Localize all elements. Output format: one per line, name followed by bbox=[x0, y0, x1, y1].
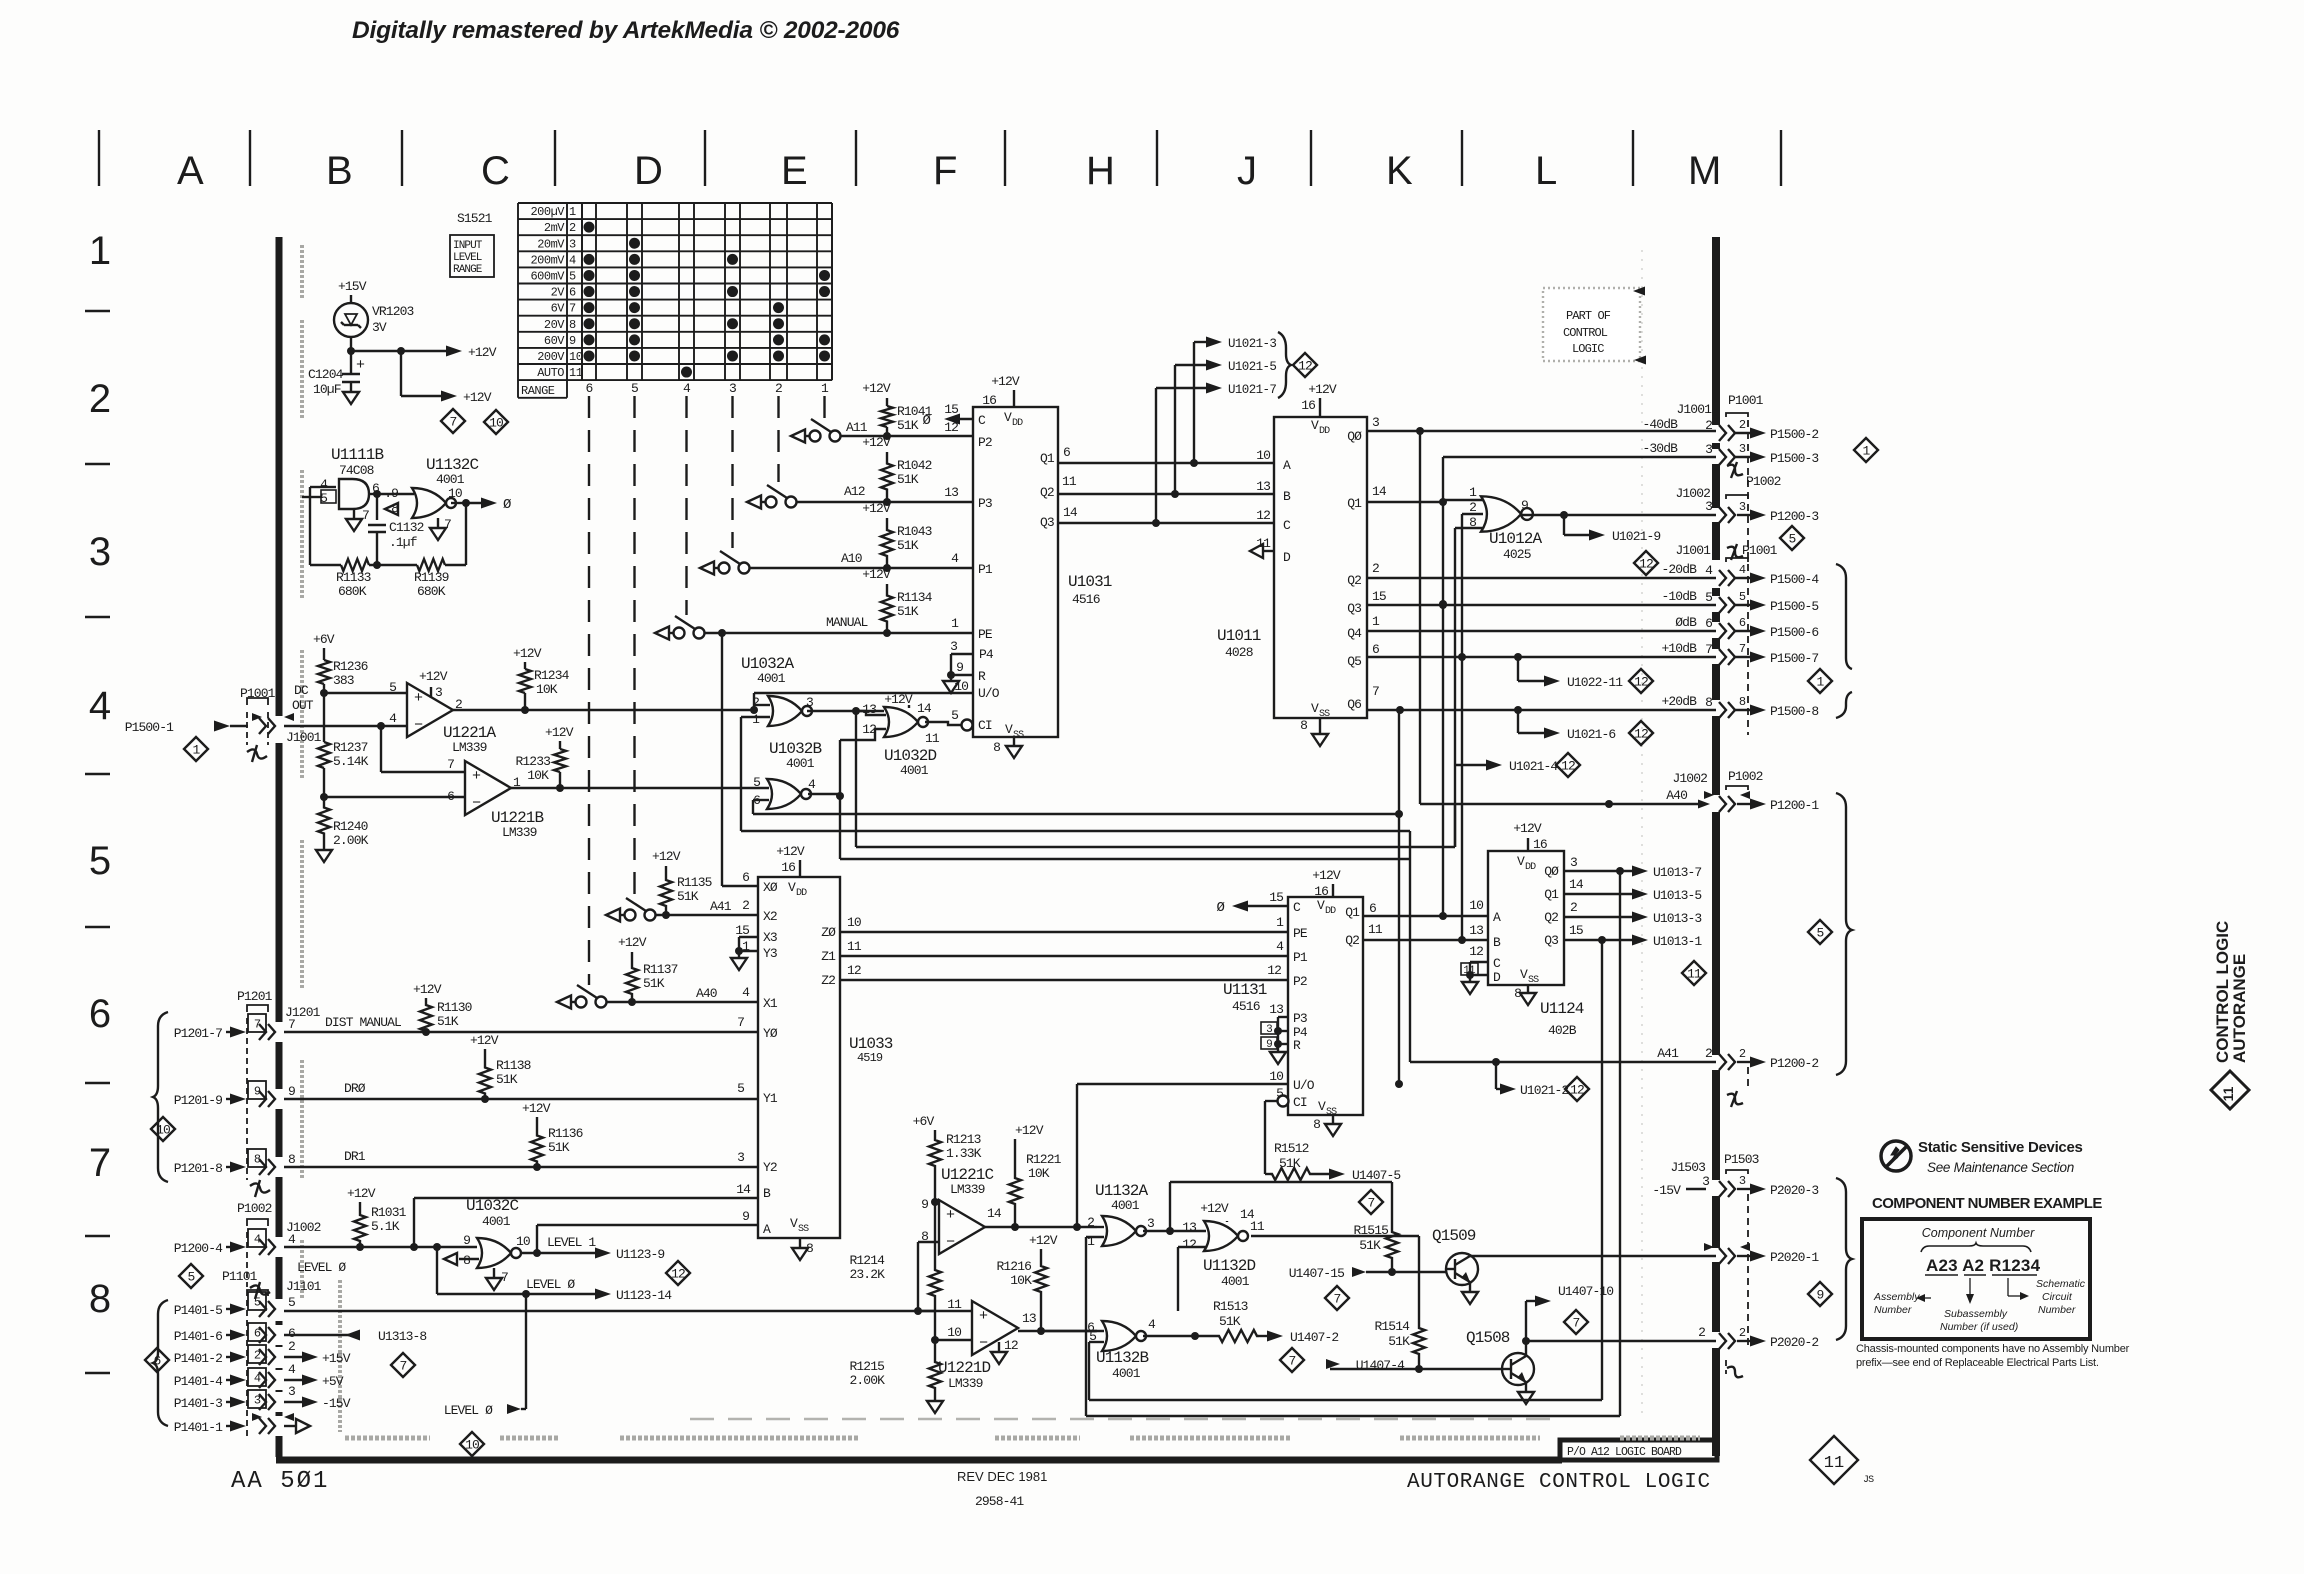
svg-text:P1201-9: P1201-9 bbox=[174, 1093, 222, 1108]
IC U1033 4519 bbox=[758, 877, 840, 1238]
connector P1401-2 row +15V bbox=[248, 1345, 266, 1363]
svg-text:8: 8 bbox=[1739, 695, 1746, 709]
svg-text:P1503: P1503 bbox=[1724, 1152, 1759, 1167]
Q1508 emitter ground bbox=[1525, 1382, 1527, 1392]
svg-text:QØ: QØ bbox=[1347, 429, 1362, 444]
U1221D pin 12 ground bbox=[998, 1342, 1000, 1352]
svg-text:5: 5 bbox=[1705, 590, 1712, 605]
svg-text:1: 1 bbox=[193, 743, 201, 758]
resistor R1133 bbox=[341, 559, 369, 571]
svg-text:8: 8 bbox=[89, 1277, 111, 1321]
left thick border bar bbox=[276, 237, 283, 716]
svg-text:200V: 200V bbox=[537, 350, 565, 364]
schematic circuit number label bbox=[2007, 1278, 2009, 1296]
svg-text:10: 10 bbox=[847, 915, 861, 930]
svg-text:P1101: P1101 bbox=[222, 1269, 258, 1284]
dashed P1001 bracket right bbox=[1747, 420, 1749, 735]
svg-text:R1031: R1031 bbox=[371, 1205, 407, 1220]
svg-text:600mV: 600mV bbox=[530, 270, 565, 284]
svg-text:P2020-3: P2020-3 bbox=[1770, 1183, 1818, 1198]
svg-text:51K: 51K bbox=[677, 889, 699, 904]
svg-text:U1013-1: U1013-1 bbox=[1653, 934, 1702, 949]
svg-text:P/O A12 LOGIC BOARD: P/O A12 LOGIC BOARD bbox=[1567, 1446, 1682, 1459]
svg-text:U1131: U1131 bbox=[1223, 981, 1267, 999]
feedback loop wires bottom bbox=[1088, 1342, 1090, 1400]
svg-text:680K: 680K bbox=[417, 584, 446, 599]
svg-text:P1: P1 bbox=[978, 562, 993, 577]
zener diode VR1203 bbox=[334, 303, 368, 337]
svg-text:.1µf: .1µf bbox=[389, 535, 417, 550]
svg-text:+12V: +12V bbox=[1513, 821, 1542, 836]
svg-text:V: V bbox=[1311, 418, 1319, 433]
svg-text:9: 9 bbox=[921, 1197, 928, 1212]
svg-text:+: + bbox=[414, 690, 423, 707]
svg-text:DR1: DR1 bbox=[344, 1149, 366, 1164]
diamond 12 bottom left bbox=[666, 1261, 690, 1285]
svg-text:9: 9 bbox=[288, 1084, 295, 1099]
svg-text:−: − bbox=[979, 1335, 988, 1352]
svg-text:INPUT: INPUT bbox=[453, 240, 483, 252]
svg-text:7: 7 bbox=[288, 1017, 295, 1032]
svg-text:J1001: J1001 bbox=[1676, 402, 1712, 417]
svg-text:F: F bbox=[933, 149, 957, 193]
svg-text:3: 3 bbox=[288, 1384, 295, 1399]
svg-text:5: 5 bbox=[188, 1270, 195, 1285]
diamond 11 right margin bbox=[2211, 1071, 2249, 1109]
connector P1401-3 row -15V bbox=[248, 1390, 266, 1408]
svg-text:P1002: P1002 bbox=[237, 1201, 272, 1216]
svg-text:LOGIC: LOGIC bbox=[1572, 342, 1604, 356]
svg-text:4516: 4516 bbox=[1232, 999, 1260, 1014]
crease arrows near control logic box bbox=[1633, 287, 1645, 296]
svg-text:LEVEL Ø: LEVEL Ø bbox=[444, 1403, 493, 1418]
svg-text:4: 4 bbox=[1705, 563, 1713, 578]
diamond 10 bottom bbox=[460, 1432, 484, 1456]
svg-text:1: 1 bbox=[1372, 614, 1380, 629]
Q1508 collector to P2020-2 junction bbox=[1525, 1341, 1527, 1356]
svg-text:7: 7 bbox=[362, 508, 369, 523]
wire U1032C output up to U1033 A bbox=[536, 1225, 538, 1253]
svg-text:+12V: +12V bbox=[419, 669, 448, 684]
wire -30dB row from U1012A region bbox=[1443, 456, 1716, 458]
svg-text:U1021-7: U1021-7 bbox=[1228, 383, 1276, 397]
svg-text:U/O: U/O bbox=[1293, 1078, 1315, 1093]
svg-text:9: 9 bbox=[1266, 1039, 1272, 1051]
svg-text:1: 1 bbox=[89, 229, 111, 273]
U1011 Q1 wire bbox=[1367, 501, 1443, 503]
svg-text:A: A bbox=[1493, 910, 1501, 925]
svg-text:B: B bbox=[763, 1186, 771, 1201]
svg-text:XØ: XØ bbox=[763, 880, 778, 895]
U1132A-D junction bus to R1515 bbox=[1166, 1227, 1174, 1235]
U1221C output wire bbox=[985, 1226, 1097, 1228]
svg-text:−: − bbox=[946, 1234, 955, 1251]
svg-text:60V: 60V bbox=[544, 334, 565, 348]
svg-text:AUTORANGE CONTROL LOGIC: AUTORANGE CONTROL LOGIC bbox=[1407, 1471, 1711, 1494]
svg-text:R1213: R1213 bbox=[946, 1132, 981, 1147]
svg-text:+12V: +12V bbox=[1308, 382, 1337, 397]
svg-text:J1001: J1001 bbox=[1675, 543, 1711, 558]
svg-text:74C08: 74C08 bbox=[339, 463, 374, 478]
U1221D plus wire bbox=[918, 1310, 972, 1312]
svg-text:20V: 20V bbox=[544, 318, 565, 332]
svg-text:R1133: R1133 bbox=[336, 570, 371, 585]
svg-text:7: 7 bbox=[1573, 1316, 1580, 1331]
U1031 pin 16 VDD +12V bbox=[1013, 390, 1015, 407]
capacitor C1204 bbox=[350, 351, 352, 374]
svg-text:9: 9 bbox=[956, 660, 963, 675]
U1032C ground pin 7 bbox=[493, 1268, 495, 1278]
svg-text:V: V bbox=[1517, 854, 1525, 869]
svg-text:See Maintenance Section: See Maintenance Section bbox=[1927, 1160, 2074, 1175]
long bus wire 4 bbox=[839, 796, 841, 859]
svg-text:5: 5 bbox=[737, 1081, 744, 1096]
svg-text:4001: 4001 bbox=[1111, 1198, 1140, 1213]
svg-text:U1021-3: U1021-3 bbox=[1228, 337, 1276, 351]
svg-text:+12V: +12V bbox=[347, 1186, 376, 1201]
svg-text:10: 10 bbox=[489, 416, 503, 431]
svg-text:P1401-1: P1401-1 bbox=[174, 1420, 223, 1435]
svg-text:MANUAL: MANUAL bbox=[826, 615, 868, 630]
wire A40 to U1033 X1 bbox=[606, 1001, 758, 1003]
svg-text:13: 13 bbox=[944, 485, 958, 500]
op-amp U1221D bbox=[972, 1301, 1018, 1355]
svg-text:12: 12 bbox=[1298, 359, 1312, 374]
svg-text:YØ: YØ bbox=[763, 1026, 778, 1041]
svg-text:10: 10 bbox=[1269, 1069, 1283, 1084]
svg-text:10: 10 bbox=[465, 1438, 479, 1453]
svg-text:Q1: Q1 bbox=[1544, 887, 1559, 902]
svg-text:12: 12 bbox=[847, 963, 861, 978]
svg-text:D: D bbox=[1493, 970, 1501, 985]
svg-text:K: K bbox=[1386, 149, 1413, 193]
svg-text:B: B bbox=[1493, 935, 1501, 950]
svg-text:OUT: OUT bbox=[292, 698, 314, 713]
svg-text:10: 10 bbox=[569, 350, 583, 364]
svg-text:R1233: R1233 bbox=[515, 754, 550, 769]
svg-text:C: C bbox=[1293, 900, 1301, 915]
wire down to second +12V arrow bbox=[400, 351, 402, 396]
NOR gate U1032A bbox=[768, 696, 802, 726]
svg-text:LEVEL: LEVEL bbox=[453, 252, 482, 264]
svg-text:Ø: Ø bbox=[922, 413, 930, 429]
arrow U1021-9 bbox=[1563, 515, 1565, 535]
svg-text:2: 2 bbox=[1372, 561, 1379, 576]
svg-text:+5V: +5V bbox=[322, 1374, 344, 1389]
svg-text:20mV: 20mV bbox=[537, 237, 565, 251]
wire A11 to U1031 P2 bbox=[840, 435, 973, 437]
svg-text:8: 8 bbox=[993, 740, 1000, 755]
svg-text:12: 12 bbox=[1639, 557, 1653, 572]
svg-text:P2020-1: P2020-1 bbox=[1770, 1250, 1819, 1265]
svg-text:U1221D: U1221D bbox=[938, 1359, 991, 1377]
subassembly arrow bbox=[1969, 1278, 1971, 1296]
svg-text:16: 16 bbox=[781, 860, 795, 875]
U1032A out to U1032D bbox=[807, 710, 884, 712]
svg-text:V: V bbox=[1318, 1099, 1326, 1114]
svg-text:J1001: J1001 bbox=[286, 730, 322, 745]
svg-text:U1124: U1124 bbox=[1540, 1000, 1584, 1018]
svg-text:P1401-6: P1401-6 bbox=[174, 1329, 222, 1344]
svg-text:Q1: Q1 bbox=[1040, 451, 1055, 466]
svg-text:U1012A: U1012A bbox=[1489, 530, 1543, 548]
svg-text:Q3: Q3 bbox=[1544, 933, 1558, 948]
svg-text:V: V bbox=[788, 880, 796, 895]
svg-text:4001: 4001 bbox=[1221, 1274, 1250, 1289]
svg-text:4: 4 bbox=[569, 253, 576, 267]
svg-text:R1215: R1215 bbox=[849, 1359, 884, 1374]
svg-text:+: + bbox=[979, 1308, 988, 1325]
svg-text:P1500-7: P1500-7 bbox=[1770, 651, 1818, 666]
svg-text:4516: 4516 bbox=[1072, 592, 1100, 607]
svg-text:Q2: Q2 bbox=[1347, 573, 1361, 588]
svg-text:2: 2 bbox=[1705, 1046, 1712, 1061]
svg-text:J1002: J1002 bbox=[1672, 771, 1707, 786]
svg-text:8: 8 bbox=[569, 318, 576, 332]
svg-text:Digitally remastered by ArtekM: Digitally remastered by ArtekMedia © 200… bbox=[352, 17, 900, 44]
svg-text:15: 15 bbox=[1372, 589, 1386, 604]
svg-text:U1132D: U1132D bbox=[1203, 1257, 1256, 1275]
svg-text:-15V: -15V bbox=[1652, 1183, 1681, 1198]
svg-text:14: 14 bbox=[736, 1182, 751, 1197]
svg-text:R1135: R1135 bbox=[677, 875, 712, 890]
svg-text:10: 10 bbox=[1469, 898, 1483, 913]
connector row P2020-1 bbox=[1719, 1248, 1726, 1264]
connector P1201-8 row bbox=[248, 1149, 266, 1167]
svg-text:1: 1 bbox=[1863, 444, 1871, 459]
Q0 vertical down to A40 row bbox=[1419, 431, 1421, 804]
svg-text:10K: 10K bbox=[536, 682, 558, 697]
svg-text:16: 16 bbox=[1314, 884, 1328, 899]
output wire of U1221B bbox=[511, 787, 769, 789]
svg-text:Q1: Q1 bbox=[1345, 905, 1360, 920]
svg-text:ZØ: ZØ bbox=[821, 925, 836, 940]
output wire to phi node bbox=[451, 502, 466, 504]
svg-text:R1221: R1221 bbox=[1026, 1152, 1062, 1167]
wire MANUAL to U1031 PE bbox=[704, 632, 973, 634]
svg-text:A: A bbox=[763, 1222, 771, 1237]
resistor R1240 bbox=[318, 797, 330, 844]
svg-text:6: 6 bbox=[569, 286, 576, 300]
svg-text:7: 7 bbox=[569, 302, 576, 316]
svg-text:U1021-5: U1021-5 bbox=[1228, 360, 1276, 374]
svg-text:CONTROL: CONTROL bbox=[1563, 326, 1608, 340]
svg-text:200mV: 200mV bbox=[530, 253, 565, 267]
svg-text:AUTO: AUTO bbox=[537, 366, 564, 380]
svg-text:U1123-9: U1123-9 bbox=[616, 1247, 664, 1262]
svg-text:DRØ: DRØ bbox=[344, 1081, 366, 1096]
INPUT LEVEL RANGE box bbox=[450, 235, 494, 277]
svg-text:5.1K: 5.1K bbox=[371, 1219, 400, 1234]
IC U1011 4028 bbox=[1274, 417, 1367, 718]
svg-text:14: 14 bbox=[1063, 505, 1078, 520]
diamond 11 mid right bbox=[1682, 961, 1706, 985]
brace and diamond 12 for U1021 group bbox=[1278, 332, 1291, 398]
svg-text:3: 3 bbox=[1570, 855, 1577, 870]
svg-text:+12V: +12V bbox=[1029, 1233, 1058, 1248]
U1032C output LEVEL 1 bbox=[522, 1252, 596, 1254]
wire A10 to U1031 P1 bbox=[749, 567, 973, 569]
svg-text:U1123-14: U1123-14 bbox=[616, 1288, 672, 1303]
svg-text:Q1: Q1 bbox=[1347, 496, 1362, 511]
svg-text:SS: SS bbox=[798, 1224, 809, 1235]
PART OF CONTROL LOGIC dashed box bbox=[1543, 288, 1640, 361]
svg-text:7: 7 bbox=[400, 1359, 407, 1374]
svg-text:R: R bbox=[1293, 1038, 1301, 1053]
svg-text:8: 8 bbox=[288, 1152, 295, 1167]
diamond 7 bbox=[441, 409, 465, 433]
svg-text:4: 4 bbox=[89, 684, 111, 728]
svg-text:A40: A40 bbox=[696, 986, 717, 1001]
svg-text:4: 4 bbox=[288, 1232, 296, 1247]
U1124 VSS pin 8 ground bbox=[1527, 985, 1529, 993]
svg-text:6: 6 bbox=[586, 381, 593, 396]
verticals from U1013 outputs to bottom loops bbox=[1619, 871, 1621, 1416]
U1132B output to R1513 bbox=[1143, 1335, 1195, 1337]
arrow U1021-5 bbox=[1175, 364, 1208, 366]
svg-text:-30dB: -30dB bbox=[1642, 441, 1678, 456]
svg-text:7: 7 bbox=[1372, 684, 1379, 699]
svg-text:5: 5 bbox=[288, 1295, 295, 1310]
svg-text:12: 12 bbox=[1267, 963, 1281, 978]
svg-text:10: 10 bbox=[947, 1325, 961, 1340]
svg-text:4: 4 bbox=[951, 551, 959, 566]
connector P1401-4 row +5V bbox=[248, 1368, 266, 1386]
svg-text:Q2: Q2 bbox=[1345, 933, 1359, 948]
connector P1401-1 row bbox=[252, 1413, 262, 1421]
svg-text:6: 6 bbox=[1369, 901, 1376, 916]
svg-text:Circuit: Circuit bbox=[2042, 1291, 2073, 1303]
U1132D output wire to R1514 bbox=[1251, 1235, 1419, 1237]
svg-text:P1500-3: P1500-3 bbox=[1770, 451, 1818, 466]
arrow U1407-10 bbox=[1525, 1301, 1527, 1341]
svg-text:E: E bbox=[781, 149, 808, 193]
static sensitive devices symbol bbox=[1881, 1141, 1911, 1171]
Q1509 collector to P2020-1 bbox=[1469, 1255, 1471, 1257]
svg-text:P1500-5: P1500-5 bbox=[1770, 599, 1818, 614]
svg-text:A12: A12 bbox=[844, 484, 865, 499]
svg-text:Subassembly: Subassembly bbox=[1944, 1308, 2008, 1320]
svg-text:H: H bbox=[1086, 149, 1115, 193]
capacitor C1132 bbox=[376, 494, 378, 520]
svg-text:3: 3 bbox=[1705, 442, 1712, 457]
squiggle under P1002 bbox=[250, 1285, 270, 1294]
wires into U1221C bbox=[935, 1201, 939, 1203]
svg-text:11: 11 bbox=[1824, 1454, 1844, 1473]
svg-text:6: 6 bbox=[1372, 642, 1379, 657]
connector P1201-9 row bbox=[248, 1081, 266, 1099]
svg-text:Assembly: Assembly bbox=[1873, 1291, 1920, 1303]
svg-text:P1002: P1002 bbox=[1746, 474, 1781, 489]
resistor R1236 bbox=[318, 660, 330, 684]
wire minus input down to U1221B plus bbox=[380, 726, 382, 772]
svg-text:P1500-4: P1500-4 bbox=[1770, 572, 1819, 587]
svg-text:10µF: 10µF bbox=[313, 382, 341, 397]
brace P1201 group bbox=[153, 1012, 168, 1182]
svg-text:U/O: U/O bbox=[978, 686, 1000, 701]
U1012A output wire to P1200-3 bbox=[1521, 514, 1716, 516]
svg-text:P4: P4 bbox=[979, 647, 994, 662]
right thick border bar bbox=[1712, 237, 1720, 425]
svg-text:LEVEL 1: LEVEL 1 bbox=[547, 1235, 596, 1250]
svg-text:V: V bbox=[1005, 722, 1013, 737]
svg-text:4028: 4028 bbox=[1225, 645, 1253, 660]
svg-text:C1132: C1132 bbox=[389, 520, 424, 535]
svg-text:P1401-3: P1401-3 bbox=[174, 1396, 222, 1411]
switch A41 lower bbox=[606, 909, 620, 922]
svg-text:J: J bbox=[1237, 149, 1257, 193]
svg-text:11: 11 bbox=[1062, 474, 1077, 489]
svg-text:4: 4 bbox=[808, 777, 816, 792]
svg-text:U1021-6: U1021-6 bbox=[1567, 727, 1615, 742]
svg-text:R1515: R1515 bbox=[1353, 1223, 1388, 1238]
svg-text:1.33K: 1.33K bbox=[946, 1146, 982, 1161]
svg-text:6: 6 bbox=[89, 992, 111, 1036]
right bottom brace diamond 9 bbox=[1836, 1178, 1852, 1340]
wire connector to minus input bbox=[284, 725, 381, 727]
IC U1124 402B bbox=[1488, 851, 1564, 985]
svg-text:13: 13 bbox=[1256, 479, 1270, 494]
component number brace bbox=[1921, 1243, 2031, 1252]
long bus wire 3 bbox=[855, 711, 857, 847]
svg-text:Q4: Q4 bbox=[1347, 626, 1362, 641]
svg-text:P1500-2: P1500-2 bbox=[1770, 427, 1818, 442]
svg-text:Q5: Q5 bbox=[1347, 654, 1361, 669]
svg-text:6: 6 bbox=[1063, 445, 1070, 460]
svg-text:3: 3 bbox=[950, 639, 957, 654]
dashed bus lines from switch table columns bbox=[588, 396, 590, 985]
svg-text:200µV: 200µV bbox=[530, 205, 565, 219]
breakage squiggle below P1200-2 bbox=[1727, 1094, 1743, 1105]
svg-text:J1503: J1503 bbox=[1670, 1160, 1705, 1175]
svg-text:12: 12 bbox=[1634, 727, 1648, 742]
svg-text:9: 9 bbox=[1521, 498, 1528, 513]
svg-text:LM339: LM339 bbox=[502, 825, 537, 840]
svg-text:V: V bbox=[1004, 410, 1012, 425]
svg-text:P1500-1: P1500-1 bbox=[125, 720, 174, 735]
svg-text:U1407-5: U1407-5 bbox=[1352, 1168, 1400, 1183]
svg-text:R1043: R1043 bbox=[897, 524, 932, 539]
svg-text:51K: 51K bbox=[897, 418, 919, 433]
svg-text:+10dB: +10dB bbox=[1661, 641, 1697, 656]
svg-text:+12V: +12V bbox=[862, 567, 891, 582]
arrow U1021-2 bbox=[1495, 1062, 1497, 1089]
svg-text:R1234: R1234 bbox=[534, 668, 570, 683]
svg-text:R1237: R1237 bbox=[333, 740, 368, 755]
svg-text:P2: P2 bbox=[978, 435, 992, 450]
svg-text:PE: PE bbox=[978, 627, 993, 642]
svg-text:A41: A41 bbox=[1657, 1046, 1679, 1061]
svg-text:12: 12 bbox=[1004, 1338, 1018, 1353]
U1221D output wire bbox=[1018, 1330, 1097, 1332]
svg-text:5: 5 bbox=[631, 381, 638, 396]
NOR gate U1032C bbox=[477, 1238, 511, 1268]
svg-text:7: 7 bbox=[450, 415, 457, 430]
svg-text:2: 2 bbox=[775, 381, 782, 396]
svg-text:4001: 4001 bbox=[900, 763, 929, 778]
Q1509 emitter ground bbox=[1469, 1282, 1471, 1292]
switch A12 bbox=[747, 496, 761, 509]
svg-text:12: 12 bbox=[671, 1267, 685, 1282]
svg-text:U1407-2: U1407-2 bbox=[1290, 1330, 1338, 1345]
svg-text:DD: DD bbox=[1012, 418, 1023, 429]
svg-text:L: L bbox=[1535, 149, 1557, 193]
svg-text:COMPONENT NUMBER EXAMPLE: COMPONENT NUMBER EXAMPLE bbox=[1872, 1195, 2102, 1212]
svg-text:prefix—see end of Replaceable: prefix—see end of Replaceable Electrical… bbox=[1856, 1357, 2099, 1369]
svg-text:+12V: +12V bbox=[991, 374, 1020, 389]
svg-text:R1240: R1240 bbox=[333, 819, 368, 834]
switch MANUAL bbox=[655, 627, 669, 640]
